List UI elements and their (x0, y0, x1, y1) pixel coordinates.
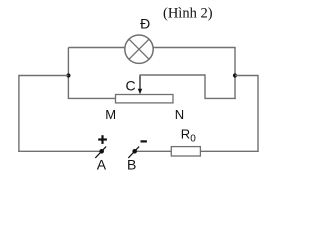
svg-text:A: A (97, 156, 107, 172)
svg-text:(Hình 2): (Hình 2) (163, 6, 213, 22)
svg-text:B: B (127, 156, 136, 172)
wire left outer vertical (18, 75, 20, 152)
wire right horizontal (junction to outer loop) (235, 75, 258, 77)
wire slider step horizontal (205, 97, 236, 99)
wire left branch vertical (67, 48, 69, 100)
svg-text:M: M (105, 107, 116, 122)
wire B to resistor (135, 150, 172, 152)
wire top-left (junction to lamp) (68, 47, 125, 49)
wire slider step vertical (204, 74, 206, 99)
junction node left (66, 73, 70, 77)
wire bottom-right (outer loop to resistor R0) (200, 150, 258, 152)
svg-text:Đ: Đ (140, 16, 150, 32)
wire left horizontal (junction to outer loop) (19, 75, 69, 77)
plus sign (98, 135, 107, 144)
junction node right (233, 73, 237, 77)
slider arrow C (138, 75, 142, 94)
terminal A (95, 147, 106, 158)
svg-text:C: C (125, 78, 135, 94)
wire slider horizontal (139, 74, 205, 76)
rheostat MN body (116, 95, 174, 103)
wire right branch vertical (234, 48, 236, 100)
wire M lead (junction branch to rheostat) (68, 97, 115, 99)
wire bottom-left (to terminal A) (18, 150, 102, 152)
svg-text:R0: R0 (181, 127, 196, 145)
resistor R0 body (171, 147, 200, 156)
lamp D (circle with X) (125, 35, 153, 63)
wire top-right (lamp to right corner) (154, 47, 236, 49)
terminal B (128, 147, 139, 158)
svg-text:N: N (175, 107, 184, 122)
minus sign (141, 140, 147, 142)
wire right outer vertical (257, 75, 259, 152)
